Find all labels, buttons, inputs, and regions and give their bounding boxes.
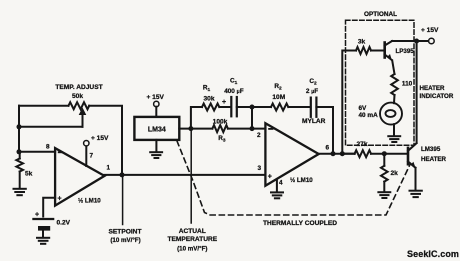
node 3k riser junction xyxy=(340,151,345,156)
wire riser to R1 xyxy=(191,107,202,129)
wire noninverting input to battery xyxy=(43,198,55,217)
wire 3k riser xyxy=(342,51,356,154)
wire LM34 output to op-amp2 pin2 xyxy=(179,128,212,130)
svg-text:30k: 30k xyxy=(203,96,214,103)
wire node to R2 xyxy=(252,106,271,108)
svg-text:+ 15V: + 15V xyxy=(147,94,165,101)
node LM34 output junction xyxy=(188,126,193,131)
wire +15V pin7 xyxy=(85,146,87,166)
svg-text:OPTIONAL: OPTIONAL xyxy=(364,11,397,18)
ground below battery xyxy=(37,238,49,244)
node top junction xyxy=(250,105,255,110)
svg-text:R2: R2 xyxy=(274,83,282,92)
ground below op-amp2 xyxy=(271,192,283,198)
svg-text:(10 mV/°F): (10 mV/°F) xyxy=(177,245,207,252)
node junction rail-pin8 xyxy=(17,149,22,154)
wire op-amp2 output xyxy=(319,153,355,155)
svg-text:+ 15V: + 15V xyxy=(91,135,109,142)
wire node down to pin2 line xyxy=(251,107,253,129)
resistor R7 110 xyxy=(391,74,398,95)
svg-text:6: 6 xyxy=(326,145,330,152)
terminal +15V right xyxy=(429,38,435,44)
ground op-amp2 pin4 stem xyxy=(276,180,278,192)
svg-text:+: + xyxy=(58,196,62,203)
wire output to 27k xyxy=(342,153,354,155)
svg-text:MYLAR: MYLAR xyxy=(302,118,326,125)
wire C2 riser to output xyxy=(316,107,333,154)
wire R1 to C1 xyxy=(219,106,230,108)
wire R2 to C2 xyxy=(288,106,310,108)
svg-text:TEMPERATURE: TEMPERATURE xyxy=(167,236,217,243)
wire R3 to op-amp2 xyxy=(228,128,266,130)
ground below LM395 xyxy=(410,191,422,197)
svg-text:(10 mV/°F): (10 mV/°F) xyxy=(110,237,140,244)
svg-text:50k: 50k xyxy=(72,93,83,100)
svg-text:3k: 3k xyxy=(358,39,366,46)
svg-text:2k: 2k xyxy=(391,170,399,177)
ground below lamp xyxy=(388,136,400,142)
wire +15V rail to LM395 collector xyxy=(416,41,418,143)
potentiometer wiper arrow xyxy=(79,108,87,127)
svg-text:LM395: LM395 xyxy=(421,146,441,153)
svg-text:SETPOINT: SETPOINT xyxy=(109,228,142,235)
label minus op-amp1 xyxy=(58,151,63,153)
wire top feedback segment right of pot xyxy=(89,106,122,175)
svg-text:LM34: LM34 xyxy=(148,126,166,133)
svg-text:7: 7 xyxy=(90,153,94,160)
wire lamp to ground xyxy=(393,124,395,135)
svg-text:C2: C2 xyxy=(309,78,317,87)
svg-text:400 μF: 400 μF xyxy=(224,88,244,95)
node +15V junction xyxy=(414,39,419,44)
svg-text:40 mA: 40 mA xyxy=(359,112,379,119)
svg-text:½ LM10: ½ LM10 xyxy=(290,177,313,184)
capacitor C2 2uF mylar xyxy=(311,98,317,117)
wire C1 to node xyxy=(237,106,252,108)
wire LP395 emitter to 110 xyxy=(392,60,394,74)
wire LM34 ground stem xyxy=(155,140,157,152)
resistor R6 3k xyxy=(356,47,371,54)
op-amp U2 half LM10 xyxy=(265,123,318,186)
op-amp U1 half LM10 xyxy=(55,148,104,206)
optional dashed box xyxy=(346,20,415,145)
svg-text:ACTUAL: ACTUAL xyxy=(179,228,206,235)
svg-text:10M: 10M xyxy=(272,94,285,101)
resistor R9 2k xyxy=(381,154,388,192)
svg-text:INDICATOR: INDICATOR xyxy=(420,93,454,100)
ground below 2k xyxy=(378,192,390,198)
svg-text:110: 110 xyxy=(402,81,413,88)
resistor R5 5k xyxy=(16,152,23,188)
wire +15V to LM34 xyxy=(155,107,157,117)
node pin2 junction xyxy=(250,126,255,131)
node junction rail-wiper xyxy=(17,124,22,129)
label minus op-amp2 xyxy=(268,128,273,130)
svg-text:4: 4 xyxy=(279,179,283,186)
wire wiper to left rail xyxy=(19,126,83,128)
svg-text:½ LM10: ½ LM10 xyxy=(78,198,101,205)
battery B1 0.2V xyxy=(33,219,53,237)
resistor R8 27k xyxy=(355,150,371,157)
potentiometer R4 50k TEMP ADJUST xyxy=(69,102,90,109)
ground below 5k xyxy=(14,189,26,195)
node 2k junction xyxy=(382,151,387,156)
svg-text:THERMALLY COUPLED: THERMALLY COUPLED xyxy=(263,220,337,227)
svg-text:C1: C1 xyxy=(230,78,238,87)
svg-text:R1: R1 xyxy=(203,85,211,94)
terminal +15V LM34 xyxy=(154,101,159,106)
svg-text:HEATER: HEATER xyxy=(420,85,446,92)
resistor R1 30k xyxy=(202,104,219,111)
actual temperature label leader xyxy=(190,129,192,223)
thermally coupled dashed path xyxy=(177,141,411,215)
transistor Q2 LM395 heater xyxy=(408,143,417,190)
svg-text:+: + xyxy=(35,212,39,219)
wire op-amp1 output / setpoint line xyxy=(105,174,266,176)
svg-text:2 μF: 2 μF xyxy=(306,88,318,95)
svg-text:0.2V: 0.2V xyxy=(57,219,71,226)
svg-text:3: 3 xyxy=(257,165,261,172)
resistor R3 100k xyxy=(212,125,228,132)
setpoint label leader xyxy=(122,175,124,225)
wire left rail vertical xyxy=(18,106,20,152)
svg-text:8: 8 xyxy=(46,144,50,151)
svg-text:SeekIC.com: SeekIC.com xyxy=(407,249,459,259)
wire top feedback segment left of pot xyxy=(19,105,69,107)
svg-text:LP395: LP395 xyxy=(396,48,415,55)
svg-text:+: + xyxy=(222,99,226,106)
svg-text:+ 15V: + 15V xyxy=(421,27,439,34)
svg-text:+: + xyxy=(268,173,272,180)
wire LP395 collector to +15V xyxy=(392,40,429,42)
svg-text:TEMP. ADJUST: TEMP. ADJUST xyxy=(55,84,102,91)
wire 110 to lamp xyxy=(393,95,396,103)
svg-text:1: 1 xyxy=(107,165,111,172)
lamp DS1 6V 40mA xyxy=(380,103,402,125)
ground below LM34 xyxy=(150,152,162,158)
wire pin 8 line xyxy=(19,151,55,153)
wire 27k to LM395 base xyxy=(371,153,407,155)
sensor LM34 box xyxy=(134,117,179,140)
svg-text:6V: 6V xyxy=(359,105,368,112)
wire 3k to LP395 base xyxy=(371,50,384,52)
capacitor C1 400uF xyxy=(231,97,237,116)
svg-text:27k: 27k xyxy=(356,141,367,148)
svg-text:100k: 100k xyxy=(213,119,228,126)
terminal +15V op-amp1 xyxy=(84,141,89,146)
svg-text:5k: 5k xyxy=(25,171,33,178)
node C2 feedback junction xyxy=(331,151,336,156)
svg-text:HEATER: HEATER xyxy=(421,156,447,163)
transistor Q1 LP395 xyxy=(385,41,392,60)
svg-text:R3: R3 xyxy=(218,135,226,144)
node setpoint junction xyxy=(120,172,125,177)
resistor R2 10M xyxy=(271,104,288,111)
svg-text:2: 2 xyxy=(257,132,261,139)
